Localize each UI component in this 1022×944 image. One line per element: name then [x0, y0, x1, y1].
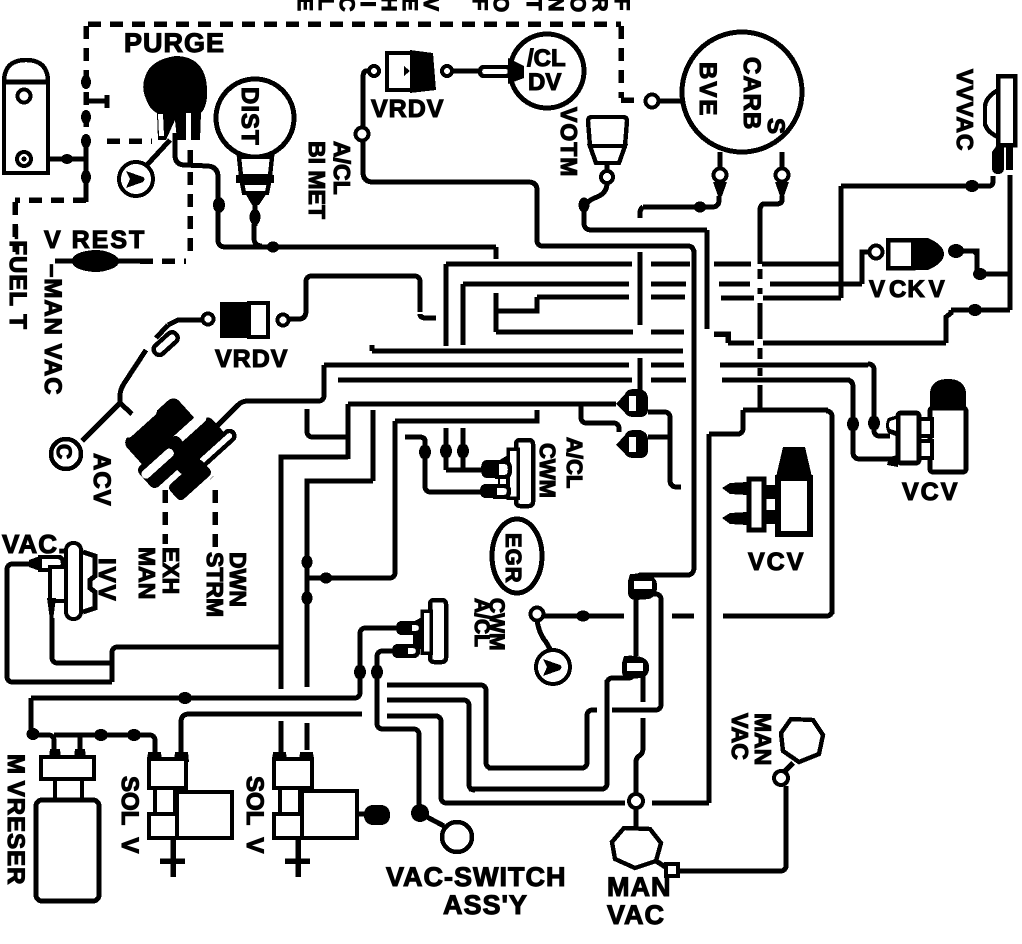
- wire x=786 up to ring: [784, 786, 789, 868]
- svg-text:S: S: [762, 118, 789, 134]
- sol v1 nipples: [147, 752, 162, 762]
- sol v1 ground cross: [160, 838, 185, 877]
- wire carb right port down to x=760: [760, 196, 782, 264]
- carb circle: [682, 32, 802, 152]
- svg-text:VAC: VAC: [727, 713, 753, 760]
- bus y=647: [116, 645, 281, 650]
- capsule into a/cl dv: [480, 67, 510, 76]
- wire bus y=421 jog piece: [395, 410, 537, 421]
- sol v2 nipples: [272, 752, 287, 762]
- a/cl cwm2 cone: [413, 617, 422, 650]
- wire bus y=716 right piece: [387, 714, 438, 719]
- wire x=607 down to y=789: [601, 680, 607, 789]
- vcv1 left plate: [898, 413, 919, 463]
- wire bus y=698: [31, 692, 360, 698]
- wire vckv right to x=1010 tee: [965, 251, 1010, 274]
- acv c-circle wire: [82, 403, 120, 441]
- votm cup: [588, 117, 627, 146]
- fuel tank lower port: [17, 152, 31, 166]
- wire fuel tank to man vac tee: [30, 157, 86, 162]
- carb left stem: [718, 152, 723, 169]
- wire x=377 a/cl cwm2 lower net down to vac switch: [377, 655, 419, 806]
- wire vrdv1 right nipple to capsule: [452, 69, 480, 74]
- acv lower slit: [140, 447, 176, 480]
- v-rest restrictor blob: [72, 250, 119, 272]
- junction dot bus y=247: [267, 242, 280, 253]
- purge valve body: [143, 56, 207, 140]
- svg-text:CWM: CWM: [485, 598, 508, 650]
- vcv1 upper wing port: [886, 415, 898, 437]
- svg-text:CWM: CWM: [535, 443, 560, 498]
- wire purge left leg to A circle: [146, 140, 170, 166]
- wire corner x=537 down to y=246: [530, 182, 543, 246]
- c-circle double ring: [51, 439, 81, 469]
- wire bus y=714 sol1 piece: [181, 714, 362, 752]
- wire y=434 to x=709: [709, 432, 740, 437]
- purge valve leg slots: [158, 114, 164, 136]
- vac loop riser x=112: [112, 647, 118, 682]
- wire x=463 upper segment: [461, 284, 466, 345]
- a/cl bimet ring: [356, 128, 369, 141]
- svg-text:PURGE: PURGE: [124, 28, 225, 58]
- connector C1: [616, 389, 648, 417]
- vrdv2 right wire riser to bus246: [289, 276, 312, 319]
- votm wire diamond: [579, 198, 590, 213]
- wire ring to carb left edge: [659, 99, 684, 104]
- dashed leads dwn strm: [196, 462, 215, 548]
- wire x=760 dashed-hop segments: [758, 269, 763, 410]
- svg-text:VVVAC: VVVAC: [952, 69, 978, 152]
- vcv1 wire diamonds: [868, 416, 880, 431]
- vac wire loop: [7, 564, 112, 682]
- fuel tank upper hole: [18, 90, 31, 103]
- votm stem: [605, 161, 610, 171]
- purge wire diamond: [213, 197, 225, 213]
- svg-text:VAC: VAC: [607, 900, 665, 930]
- wire y=578 to x=307: [307, 576, 391, 581]
- wire x=441 up to y=716: [435, 716, 441, 799]
- votm ring: [601, 171, 613, 183]
- svg-text:BI MET: BI MET: [304, 141, 330, 219]
- votm cup lower: [590, 146, 625, 163]
- wire vckv right dot corner: [957, 251, 977, 257]
- wire C1 right side down x=670: [648, 412, 681, 487]
- acv white pill 1: [121, 404, 159, 440]
- vcv1 body: [930, 408, 966, 472]
- wire x=373 stub down to y=481: [371, 410, 376, 481]
- vrdv1 right nipple ring: [442, 66, 452, 76]
- wire y=575 into P2: [636, 575, 690, 581]
- a/cl cwm2 lower port: [392, 644, 406, 658]
- acv white pill 2: [168, 411, 209, 449]
- svg-text:VAC-SWITCH: VAC-SWITCH: [386, 862, 566, 892]
- carb right port ring: [776, 169, 789, 182]
- vckv right dot: [948, 244, 964, 258]
- svg-text:L: L: [314, 0, 337, 11]
- svg-text:EXH: EXH: [158, 547, 184, 594]
- wire y=735 reservoir feed: [31, 735, 54, 752]
- svg-text:MAN: MAN: [134, 547, 160, 599]
- wire dashed vertical x=190: [187, 150, 193, 258]
- wire tee x=581 drop to C2: [581, 404, 619, 432]
- wire bus y=343 segments: [728, 341, 946, 346]
- wire bus y=789 to x=469: [469, 787, 604, 792]
- wire x=496 stub below corner: [494, 247, 499, 259]
- wire bus y=246 vrdv net: [541, 246, 694, 254]
- wire bus y=298 segments: [721, 296, 841, 301]
- wire dashed purge box left: [15, 200, 86, 252]
- dot y=310: [968, 304, 982, 316]
- a/cl cwm1 cone: [498, 455, 508, 493]
- svg-text:–MAN VAC: –MAN VAC: [39, 264, 66, 396]
- connector C2: [616, 430, 648, 458]
- vac switch circle: [442, 822, 472, 852]
- wire y=457 left piece and x=281 down: [281, 457, 348, 689]
- wire corner x=537 y297 to y311: [496, 297, 537, 311]
- dist cone band1: [239, 157, 272, 176]
- wire x=31 down to y=734: [29, 698, 34, 734]
- wire bus y=685 segment + corner x=486: [387, 685, 492, 768]
- wire x=833 up to y=411: [826, 411, 832, 614]
- sol v1 right block: [177, 792, 232, 838]
- diamonds x=307: [302, 555, 313, 569]
- svg-text:T: T: [522, 0, 545, 11]
- svg-text:A/CL: A/CL: [329, 141, 355, 195]
- wire P3 stem x=643 upper piece: [641, 676, 646, 702]
- wire bus y=401 to acv: [215, 401, 320, 428]
- wire bus y=768 to x=487: [488, 766, 584, 771]
- wire x=841 vvvac net down: [839, 186, 844, 298]
- svg-text:VRDV: VRDV: [371, 95, 444, 123]
- wire bus y=284 segments: [463, 282, 862, 287]
- svg-text:CARB: CARB: [738, 57, 765, 130]
- acv white pill 3: [196, 429, 237, 467]
- egr ring: [531, 608, 544, 621]
- wire x=642 segments carb-left net: [640, 207, 643, 390]
- vac ivv pointed pill: [29, 556, 40, 571]
- wire C2 right side to x=670: [648, 435, 670, 440]
- a-circle 1 arrow glyph: [126, 171, 145, 188]
- dist cone band2 black: [236, 175, 274, 183]
- vcv1 lower foot: [887, 455, 898, 467]
- man vac hex1 square port: [666, 864, 678, 876]
- acv lower body: [136, 434, 195, 491]
- sol v2 side blob: [357, 812, 366, 817]
- carb right stem: [780, 152, 785, 169]
- wire P2 bottom x=636 to P3: [634, 599, 639, 656]
- reservoir neck: [55, 779, 82, 801]
- sol v2 top block: [274, 759, 312, 788]
- wire bus y=803 right part: [652, 801, 709, 806]
- wire x=496 lower segment to y=332: [494, 293, 499, 332]
- wire a/cl cwm2 lower port wire y=651: [377, 651, 394, 657]
- wire x=946 step up to y=310: [946, 310, 951, 343]
- wire egr diag to A2 circle: [537, 620, 550, 649]
- wire a/cl cwm2 upper port wire y=628 and x=360 down: [360, 628, 398, 692]
- svg-text:C: C: [335, 0, 358, 12]
- wire bus y=297 left segments: [537, 295, 685, 300]
- svg-text:SOL V: SOL V: [116, 776, 143, 853]
- a/cl dv circle: [510, 34, 584, 108]
- wire vckv left drop to bus y=284: [862, 252, 869, 284]
- vrdv2 left nipple: [203, 314, 214, 325]
- junction diamonds on x=86: [81, 75, 91, 89]
- wire y=365 corner down x=876 to vcv1 upper: [868, 364, 890, 436]
- wire dashed purge box right segment y=140: [107, 138, 152, 144]
- a-circle 2 arrow: [543, 659, 562, 676]
- ivv stem wire: [52, 618, 112, 663]
- wire man vac hex1 right port to bus y=871: [656, 861, 667, 868]
- wire x=661 P2 drop: [648, 594, 661, 706]
- connector P3: [622, 656, 649, 679]
- vrdv2 black half: [220, 302, 249, 338]
- wire bus y=264 segments: [446, 262, 841, 267]
- wire man vac hex1 stem: [634, 809, 639, 827]
- wire vvvac left leg drop: [989, 176, 993, 186]
- wire x=709 long down to y=803: [707, 434, 712, 803]
- svg-text:V: V: [419, 0, 442, 11]
- vrdv1 black half: [404, 50, 436, 93]
- svg-text:I: I: [356, 1, 379, 7]
- wire y=380 corner down x=853 to vcv1 lower: [848, 380, 890, 459]
- wire bus y=247 dist net left part: [262, 245, 496, 250]
- a/cl dv ring on wire: [646, 95, 659, 108]
- wire dashed vertical x=86 top: [83, 26, 89, 138]
- acv diag connector pill: [152, 330, 180, 357]
- svg-text:STRM: STRM: [202, 552, 228, 617]
- wire dashed top border y=24: [88, 21, 621, 27]
- acv valve black bar 1: [122, 395, 198, 469]
- vac switch lever: [427, 817, 444, 826]
- wire x=587 down to y=768: [581, 714, 587, 768]
- vvvac left flap: [985, 90, 998, 137]
- wire bus y=380 segments: [338, 378, 850, 383]
- a/cl cwm1 lower port wire: [405, 437, 482, 492]
- wire bus y=803 left part to x=441: [441, 797, 625, 803]
- wire dashed corner x=621 down to a/cl dv: [621, 26, 634, 100]
- a/cl cwm2 second plate: [422, 611, 431, 653]
- diamond bus y=578: [320, 573, 333, 584]
- svg-text:DIST: DIST: [236, 87, 263, 146]
- sol v1 top block: [149, 759, 186, 788]
- svg-text:M VRESER: M VRESER: [2, 754, 29, 886]
- dist cone band3: [242, 183, 269, 193]
- wire bus y=186 vvvac to corner: [841, 184, 989, 189]
- vckv black arrow: [911, 238, 944, 270]
- vckv body white: [888, 240, 913, 268]
- svg-text:BVE: BVE: [694, 62, 721, 117]
- a/cl cwm1 upper port: [481, 460, 497, 478]
- vrdv1 white half: [387, 53, 412, 90]
- wire bus y=332 segments: [496, 330, 684, 335]
- vcv1 dome: [930, 379, 966, 411]
- carb left port taper: [713, 182, 727, 196]
- top rotated letter row: FRONT OF VEHICLE reversed, letters rotated 90cw: [293, 0, 633, 12]
- vac switch dot: [411, 804, 429, 822]
- wire x=348 from 404 to 459: [346, 404, 351, 459]
- ivv bracket: [83, 552, 95, 612]
- svg-text:N: N: [544, 0, 567, 12]
- wire x=307 upper stub: [307, 409, 346, 437]
- svg-text:F: F: [610, 0, 633, 11]
- reservoir body: [36, 800, 99, 901]
- sol v2 right block: [302, 791, 357, 838]
- wire y=310 to right corner: [951, 308, 1010, 313]
- svg-text:V CK V: V CK V: [869, 276, 946, 303]
- wire x=446 lower segment: [444, 428, 449, 470]
- a/cl cwm1 lower port: [480, 484, 495, 498]
- wire reservoir right nipple riser: [78, 735, 83, 750]
- svg-text:VAC.: VAC.: [2, 529, 66, 559]
- svg-text:ACV: ACV: [88, 453, 115, 507]
- wire bus y=365 segments: [324, 363, 868, 368]
- svg-text:DV: DV: [528, 69, 561, 96]
- a-circle 2: [536, 650, 570, 684]
- wire dashed v-rest to x=190: [140, 258, 186, 264]
- wire x=446 upper segment: [444, 264, 449, 346]
- wire x=694 long vertical: [687, 250, 694, 575]
- ivv main lens: [66, 543, 81, 619]
- wire y=735 right portion to sol1: [54, 735, 155, 752]
- wire y=710 hop bus x=587 to x=661: [587, 704, 661, 716]
- svg-text:SOL V: SOL V: [241, 776, 268, 853]
- egr bus diamond: [576, 611, 590, 622]
- vcv2 body: [778, 478, 810, 534]
- svg-text:O: O: [566, 0, 589, 12]
- man vac hex1 ring: [629, 794, 643, 808]
- vcv2 upper port arrow: [722, 482, 747, 495]
- acv lower tail: [167, 458, 213, 502]
- ivv small box: [50, 567, 67, 601]
- a/cl cwm2 upper port: [396, 621, 410, 635]
- man vac hex2: [781, 719, 823, 762]
- carb left port ring: [714, 169, 727, 182]
- reservoir wire diamonds: [27, 728, 40, 740]
- vckv wire dot y=274: [973, 268, 987, 280]
- wire purge right down x=218: [175, 133, 262, 247]
- svg-text:IVV: IVV: [93, 558, 120, 603]
- wire bus y=410: [743, 408, 828, 413]
- egr oval: [492, 519, 542, 593]
- dist cone tip black: [245, 193, 267, 205]
- wire y=470 to a/cl cwm1 upper port: [446, 468, 485, 473]
- svg-text:ASS'Y: ASS'Y: [443, 890, 528, 920]
- wire corner x=324 y=365 to y=401: [318, 365, 324, 401]
- dist circle: [216, 79, 294, 157]
- svg-text:E: E: [293, 0, 316, 11]
- vrdv2 right nipple: [278, 315, 289, 326]
- wire y=481 to x=307: [307, 481, 373, 687]
- wire bus y=351: [372, 345, 683, 351]
- junction dot fuel wire: [61, 154, 73, 164]
- wire ring to hex2 diag: [784, 763, 793, 772]
- wire x=707 down: [705, 230, 710, 329]
- wire tee stub at x=86: [88, 95, 107, 108]
- svg-text:F: F: [468, 0, 491, 11]
- wire vrdv1 left nipple loop a/cl bimet: [363, 71, 369, 128]
- junction dot carb-left wire: [694, 202, 707, 213]
- acv wire from vrdv2 into valve: [120, 325, 168, 414]
- vrdv1 left nipple ring: [369, 66, 379, 76]
- a/cl cwm1 valve big plate: [516, 440, 533, 506]
- hook at x=420: [420, 314, 436, 318]
- svg-text:A/CL: A/CL: [562, 437, 587, 488]
- wire x=743 down to y=434: [737, 410, 743, 434]
- a/cl dv black wedge: [508, 58, 524, 84]
- wire x=395 down to y=578: [389, 421, 395, 578]
- vrdv2 white half: [249, 303, 268, 337]
- svg-text:VRDV: VRDV: [215, 345, 288, 373]
- a/cl cwm1 second plate: [508, 449, 518, 498]
- man vac hex2 ring: [774, 771, 788, 785]
- vvvac body rect: [998, 76, 1015, 145]
- acv valve black bar 2: [163, 414, 229, 478]
- a-circle 1: [119, 162, 153, 196]
- ivv stem black tip: [47, 598, 56, 620]
- svg-text:EGR: EGR: [501, 533, 526, 584]
- vcv2 lower port arrow: [722, 512, 747, 525]
- wire sol2 right stem: [305, 723, 310, 750]
- a/cl cwm2 valve big plate: [430, 600, 446, 662]
- diamonds x=360 x=377: [354, 665, 366, 680]
- wire bus y=404 to C1: [348, 402, 616, 407]
- vcv2 connector tabs: [763, 485, 778, 499]
- vcv2 left plate: [749, 479, 764, 530]
- fuel tank canister: [4, 60, 48, 173]
- vrdv2 left wire: [168, 320, 202, 325]
- svg-text:–FUEL T: –FUEL T: [4, 226, 31, 330]
- svg-text:V REST: V REST: [44, 226, 146, 254]
- wire bus y=700 right segment + corner x=469: [387, 700, 475, 790]
- wire egr ring right bus y=616: [543, 610, 832, 616]
- bus y=276 from vrdv2 to corner x=420: [310, 276, 420, 312]
- svg-text:VOTM: VOTM: [556, 107, 582, 177]
- connector P2: [628, 574, 657, 600]
- svg-text:MAN: MAN: [607, 872, 672, 902]
- svg-text:R: R: [588, 0, 611, 12]
- vvvac wire dot: [965, 180, 979, 192]
- diamonds near a/cl cwm1: [419, 445, 431, 460]
- vcv1 connectors: [917, 419, 932, 436]
- vckv left ring: [870, 246, 883, 259]
- man vac hex1: [612, 828, 661, 868]
- wire x=463 lower segment to port wire: [461, 428, 466, 470]
- svg-text:VCV: VCV: [748, 548, 805, 576]
- svg-text:/CL: /CL: [527, 45, 566, 72]
- wire below bimet ring down to y=182: [363, 141, 530, 182]
- wire P3 stem lower piece with jog to ring: [636, 718, 643, 793]
- wire dist stem to bus: [254, 224, 262, 246]
- dist stem: [253, 203, 258, 226]
- wire x=1010 vvvac down to y=310: [1008, 175, 1013, 310]
- sol v2 ground cross: [285, 838, 310, 877]
- diamond bus y=698: [178, 692, 192, 704]
- wire jog y=334 to y=343: [714, 334, 728, 343]
- wire v rest horizontal: [55, 259, 140, 264]
- svg-text:H: H: [377, 0, 400, 12]
- dist stem diamond: [250, 209, 261, 225]
- svg-text:O: O: [489, 0, 512, 12]
- vcv2 dome: [776, 447, 812, 477]
- wire votm drop to bus y=230: [584, 183, 607, 230]
- svg-text:E: E: [398, 0, 421, 11]
- vvvac legs: [992, 145, 1004, 174]
- wire sol2 left stem: [279, 721, 284, 752]
- wire vertical man vac line x=86 solid: [84, 138, 89, 202]
- wire carb left port down and left y=207: [643, 196, 719, 207]
- wire bus y=230: [590, 228, 707, 233]
- wire P3 bottom left hook to x=607: [607, 673, 633, 684]
